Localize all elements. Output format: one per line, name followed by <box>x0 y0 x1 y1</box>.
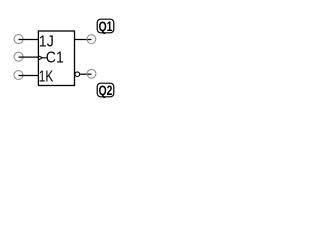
wire J input <box>19 39 39 41</box>
svg-text:C1: C1 <box>46 49 64 66</box>
node label box Q1 <box>97 19 114 33</box>
svg-text:Q1: Q1 <box>99 19 113 34</box>
svg-text:1J: 1J <box>39 33 54 50</box>
terminal Q output pin circle <box>87 35 96 44</box>
flip-flop body U1 <box>38 31 74 86</box>
svg-text:1K: 1K <box>39 68 54 85</box>
svg-text:Q2: Q2 <box>99 83 113 98</box>
wire Q output <box>75 39 92 41</box>
terminal J input pin circle <box>14 35 23 44</box>
clock arrow dynamic input <box>39 56 47 60</box>
terminal Q-bar output pin circle <box>87 69 96 78</box>
wire C input <box>19 56 39 58</box>
terminal C input pin circle <box>14 52 23 61</box>
terminal K input pin circle <box>14 71 23 80</box>
wire K input <box>19 75 39 77</box>
node label box Q2 <box>97 83 114 97</box>
wire Q-bar output <box>80 73 92 75</box>
inversion bubble Q2 <box>75 72 80 77</box>
